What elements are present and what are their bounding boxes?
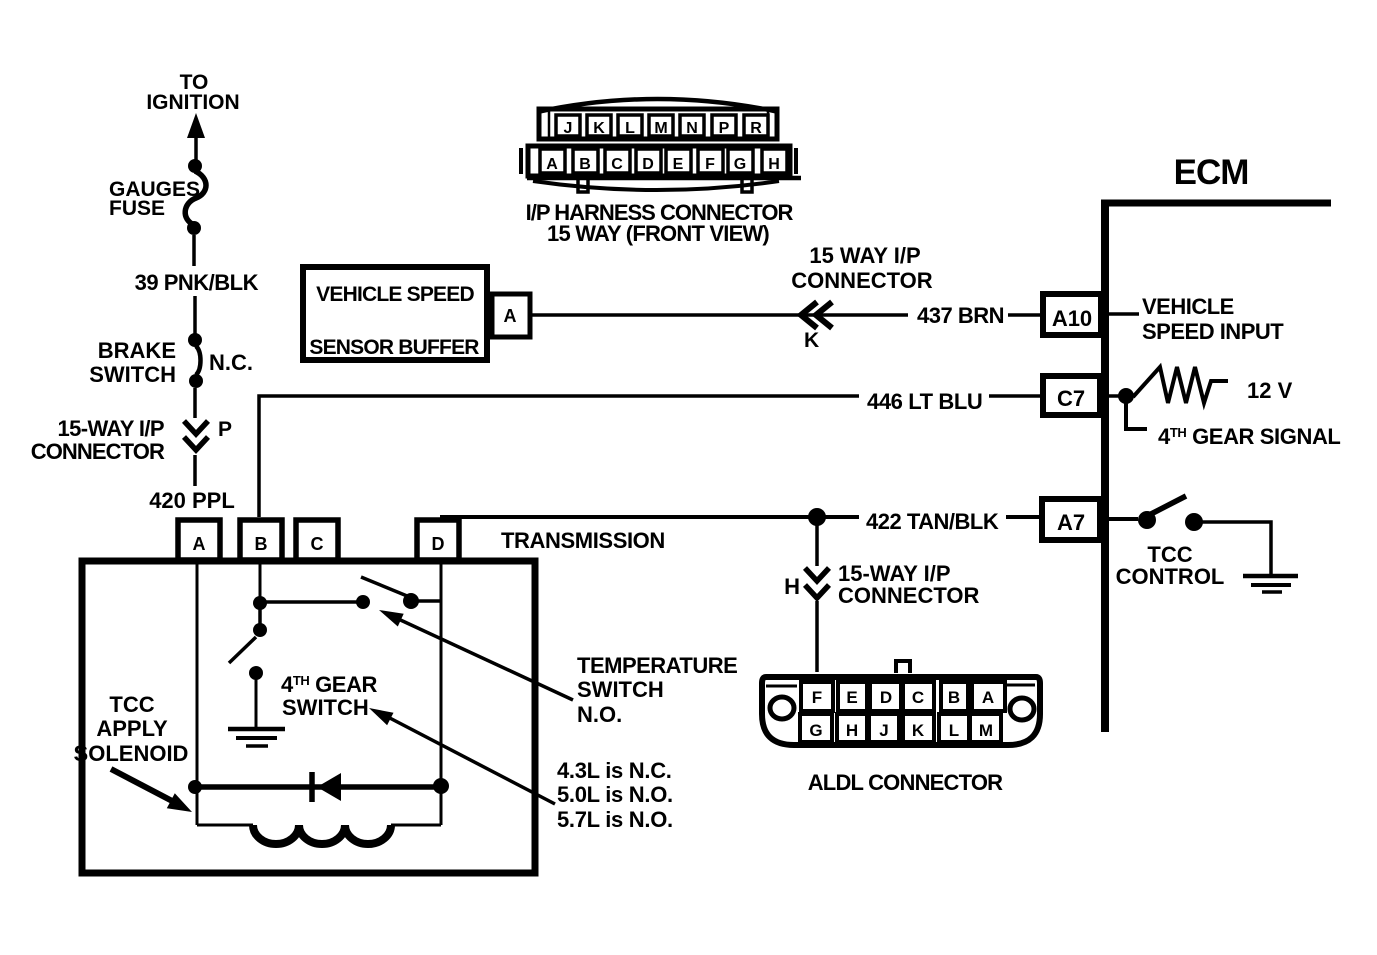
switch: TCC control (inside ECM) (1138, 496, 1203, 531)
wire: 422 TAN/BLK from transmission pin D (440, 515, 859, 519)
connector: 15-way I/P pin H chevron (805, 568, 829, 598)
wire: fuse to 39 PNK/BLK label (192, 235, 196, 266)
node: TO IGNITION (146, 71, 239, 114)
svg-text:437 BRN: 437 BRN (917, 303, 1004, 328)
wire: 446 LT BLU right segment (989, 394, 1042, 398)
switch: brake switch (N.C.) (188, 333, 203, 388)
svg-text:D: D (432, 534, 445, 554)
pin L (I/P harness upper row) (618, 115, 642, 137)
label: TEMPERATURE SWITCH N.O. (577, 653, 737, 727)
pin L (ALDL lower row) (939, 714, 969, 742)
pin C (I/P harness lower row) (605, 149, 630, 173)
svg-text:15-WAY I/P: 15-WAY I/P (57, 416, 164, 441)
connector pin A (transmission) (178, 520, 220, 560)
svg-text:C7: C7 (1057, 386, 1085, 411)
wire: 39 PNK/BLK to brake switch (193, 296, 197, 334)
svg-text:H: H (846, 721, 858, 740)
connector pin C (transmission) (296, 520, 338, 560)
switch: temperature switch N.O. (356, 577, 419, 609)
pin D (I/P harness lower row) (636, 149, 661, 173)
svg-text:B: B (948, 688, 960, 707)
svg-text:VEHICLE SPEED: VEHICLE SPEED (316, 283, 474, 306)
svg-text:5.0L is N.O.: 5.0L is N.O. (557, 782, 673, 807)
pin A (buffer output) (492, 294, 530, 337)
svg-text:K: K (804, 329, 819, 352)
connector upper shell (539, 109, 777, 139)
svg-text:VEHICLE: VEHICLE (1142, 294, 1234, 319)
svg-text:A: A (504, 306, 517, 326)
connector bottom edge (527, 176, 801, 181)
pin A (ALDL upper row) (972, 682, 1005, 711)
wire: 437 BRN right segment (1008, 313, 1042, 317)
svg-text:A7: A7 (1057, 510, 1085, 535)
wire: pin A to solenoid (420 PPL inside) (196, 562, 199, 825)
svg-text:TRANSMISSION: TRANSMISSION (501, 528, 665, 553)
svg-text:BRAKE: BRAKE (98, 338, 176, 363)
svg-text:CONNECTOR: CONNECTOR (791, 268, 932, 293)
pin A (I/P harness lower row) (540, 149, 565, 173)
svg-text:E: E (673, 156, 684, 173)
svg-text:SWITCH: SWITCH (282, 695, 369, 720)
wire: vehicle speed input stub (1109, 312, 1139, 316)
svg-text:P: P (218, 418, 232, 441)
terminal C7 (1043, 376, 1100, 415)
pin K (I/P harness upper row) (587, 115, 611, 137)
wire: brake switch to 15-way connector (193, 388, 197, 418)
pin E (I/P harness lower row) (666, 149, 691, 173)
callout arrow: TCC apply solenoid (111, 769, 192, 812)
svg-text:P: P (719, 120, 730, 137)
pin J (I/P harness upper row) (556, 115, 580, 137)
label: 4.3L/5.0L/5.7L switch notes (557, 758, 673, 832)
svg-text:K: K (593, 120, 605, 137)
pin C (ALDL upper row) (903, 682, 934, 711)
svg-text:420 PPL: 420 PPL (149, 488, 235, 513)
svg-text:B: B (579, 156, 591, 173)
svg-text:M: M (979, 721, 993, 740)
svg-text:APPLY: APPLY (96, 716, 168, 741)
pin M (I/P harness upper row) (649, 115, 673, 137)
connector mounting tab left (578, 180, 588, 192)
ALDL mounting hole left (770, 697, 794, 719)
svg-text:F: F (812, 688, 822, 707)
svg-text:M: M (654, 120, 667, 137)
wire: 437 BRN left segment (531, 313, 908, 317)
svg-text:422 TAN/BLK: 422 TAN/BLK (866, 509, 999, 534)
pin J (ALDL lower row) (869, 714, 899, 742)
label: GAUGES FUSE (109, 178, 200, 220)
wire: 446 LT BLU from B pin up and across (259, 396, 859, 517)
svg-text:CONNECTOR: CONNECTOR (31, 439, 165, 464)
svg-text:SENSOR BUFFER: SENSOR BUFFER (309, 336, 479, 359)
svg-text:G: G (809, 721, 822, 740)
pin D (ALDL upper row) (870, 682, 901, 711)
svg-text:A: A (982, 688, 994, 707)
svg-text:D: D (642, 156, 654, 173)
svg-text:4.3L is N.C.: 4.3L is N.C. (557, 758, 672, 783)
box: VEHICLE SPEED SENSOR BUFFER (303, 267, 487, 360)
svg-text:TEMPERATURE: TEMPERATURE (577, 653, 737, 678)
svg-text:5.7L is N.O.: 5.7L is N.O. (557, 807, 673, 832)
pin E (ALDL upper row) (838, 682, 867, 711)
wire: 4th gear signal stub (1126, 402, 1147, 429)
wire: 4th gear switch to temperature switch (260, 600, 358, 604)
svg-text:D: D (880, 688, 892, 707)
svg-text:J: J (564, 120, 573, 137)
connector: ALDL connector (762, 661, 1040, 745)
svg-text:R: R (750, 120, 762, 137)
wire: temperature switch to pin D line (416, 599, 441, 603)
pin G (ALDL lower row) (800, 714, 832, 742)
svg-text:N.O.: N.O. (577, 702, 622, 727)
svg-text:446 LT BLU: 446 LT BLU (867, 389, 982, 414)
wire: connector to ALDL (815, 601, 819, 672)
svg-text:C: C (611, 156, 623, 173)
pin K (ALDL lower row) (903, 714, 934, 742)
svg-text:A: A (193, 534, 206, 554)
label: TCC CONTROL (1116, 542, 1225, 589)
svg-text:IGNITION: IGNITION (146, 91, 239, 114)
wire: TCC control to ground (1202, 522, 1271, 574)
pin H (I/P harness lower row) (762, 149, 787, 173)
box: transmission case (82, 561, 535, 873)
pin B (I/P harness lower row) (573, 149, 598, 173)
svg-text:C: C (311, 534, 324, 554)
svg-text:F: F (705, 156, 715, 173)
wire: C7 to node (1109, 394, 1120, 398)
pin P (I/P harness upper row) (712, 115, 736, 137)
pin F (I/P harness lower row) (698, 149, 723, 173)
ground: 4th gear switch (228, 729, 285, 746)
label: TCC APPLY SOLENOID (74, 692, 189, 766)
switch: 4th gear switch (229, 596, 267, 680)
pin F (ALDL upper row) (801, 682, 833, 711)
svg-text:TCC: TCC (109, 692, 154, 717)
svg-text:ALDL CONNECTOR: ALDL CONNECTOR (808, 770, 1003, 795)
connector mounting tab right (742, 180, 752, 192)
wire: 422 branch down to 15-way connector (815, 524, 819, 566)
label: BRAKE SWITCH (89, 338, 176, 387)
wire: ignition feed with up arrow (187, 113, 205, 163)
svg-text:N: N (686, 120, 698, 137)
svg-text:SWITCH: SWITCH (89, 362, 176, 387)
svg-text:N.C.: N.C. (209, 350, 253, 375)
svg-text:FUSE: FUSE (109, 197, 165, 220)
callout arrow: 4th gear switch notes (369, 708, 555, 804)
svg-text:A: A (546, 156, 558, 173)
pin G (I/P harness lower row) (728, 149, 753, 173)
ALDL shell outline (762, 677, 1040, 745)
ALDL keying tab (896, 661, 910, 673)
wire: 420 PPL (193, 455, 197, 486)
svg-text:C: C (912, 688, 924, 707)
svg-text:E: E (846, 688, 857, 707)
svg-text:J: J (879, 721, 888, 740)
label: VEHICLE SPEED INPUT (1142, 294, 1284, 344)
label: 15 WAY I/P CONNECTOR (middle) (791, 243, 932, 293)
connector: 15-way I/P pin K chevron (801, 302, 832, 328)
svg-text:ECM: ECM (1174, 153, 1249, 192)
svg-text:15 WAY I/P: 15 WAY I/P (809, 243, 920, 268)
wire: 422 TAN/BLK right segment (1006, 515, 1042, 519)
terminal A7 (1042, 499, 1100, 540)
svg-text:SWITCH: SWITCH (577, 677, 664, 702)
wire: A7 to TCC control switch (1109, 517, 1138, 521)
connector: 15-way I/P pin P chevron (184, 421, 208, 450)
svg-text:G: G (734, 156, 746, 173)
connector bottom arc (533, 181, 779, 190)
label: 15-WAY I/P CONNECTOR (right) (838, 561, 979, 608)
inductor: TCC apply solenoid coil (197, 825, 441, 844)
pin R (I/P harness upper row) (744, 115, 768, 137)
connector top arc (537, 99, 779, 112)
label: 15-WAY I/P CONNECTOR (left) (31, 416, 165, 464)
resistor: pull-up to 12 V (1133, 367, 1228, 403)
svg-text:L: L (949, 721, 959, 740)
svg-text:CONTROL: CONTROL (1116, 564, 1225, 589)
label: I/P HARNESS CONNECTOR 15 WAY (FRONT VIEW) (526, 200, 794, 246)
wire: solenoid top rail with junctions (188, 778, 449, 794)
label: 4TH GEAR SWITCH (281, 672, 378, 720)
wire: pin B down to 4th gear switch (259, 562, 262, 601)
wire: 4th gear switch to ground (255, 676, 258, 727)
callout arrow: temperature switch (379, 610, 573, 700)
pin H (ALDL lower row) (837, 714, 867, 742)
pin N (I/P harness upper row) (680, 115, 704, 137)
pin M (ALDL lower row) (970, 714, 1001, 742)
svg-text:H: H (768, 156, 780, 173)
svg-text:K: K (912, 721, 925, 740)
connector pin B (transmission) (240, 520, 282, 560)
terminal A10 (1043, 294, 1101, 335)
fuse: GAUGES FUSE (185, 159, 206, 235)
svg-text:SPEED INPUT: SPEED INPUT (1142, 319, 1284, 344)
connector lower shell (528, 146, 790, 176)
svg-text:H: H (784, 574, 800, 599)
pin B (ALDL upper row) (941, 682, 968, 711)
svg-text:A10: A10 (1052, 306, 1092, 331)
svg-text:CONNECTOR: CONNECTOR (838, 583, 979, 608)
ALDL mounting hole right (1010, 698, 1034, 720)
svg-text:B: B (255, 534, 268, 554)
svg-text:SOLENOID: SOLENOID (74, 741, 189, 766)
svg-text:39 PNK/BLK: 39 PNK/BLK (135, 270, 259, 295)
ECM boundary top edge (1101, 200, 1331, 207)
ECM boundary left edge (1101, 200, 1109, 732)
connector pin D (transmission) (417, 520, 459, 560)
connector: I/P harness connector 15-way front view (521, 99, 801, 192)
junction: C7 internal node (1118, 388, 1134, 404)
junction: ALDL branch node (808, 508, 826, 526)
ground: TCC control (1243, 576, 1298, 592)
diode: solenoid clamp diode (312, 772, 341, 802)
wire: pin D down to diode line (440, 562, 443, 825)
svg-text:L: L (625, 120, 635, 137)
svg-text:12 V: 12 V (1247, 378, 1293, 403)
svg-text:15 WAY (FRONT VIEW): 15 WAY (FRONT VIEW) (547, 221, 769, 246)
